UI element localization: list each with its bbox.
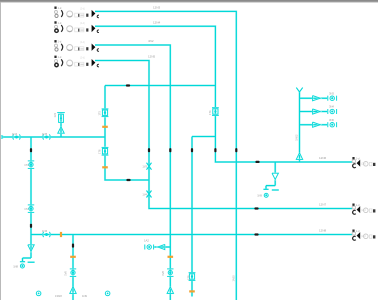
svg-text:1-d: 1-d xyxy=(58,22,62,25)
svg-text:12N4: 12N4 xyxy=(153,20,161,24)
svg-text:3N4: 3N4 xyxy=(329,105,334,109)
svg-text:(2-d): (2-d) xyxy=(80,8,85,10)
svg-text:3N3: 3N3 xyxy=(329,91,334,95)
svg-text:1N05: 1N05 xyxy=(232,275,236,282)
svg-text:1-d: 1-d xyxy=(58,56,62,59)
svg-text:1T4: 1T4 xyxy=(208,110,212,115)
svg-text:1N8: 1N8 xyxy=(13,264,18,268)
svg-text:1T1: 1T1 xyxy=(24,163,29,167)
svg-text:1-d: 1-d xyxy=(356,204,360,207)
svg-text:12N6: 12N6 xyxy=(319,156,327,160)
svg-text:1-d: 1-d xyxy=(356,230,360,233)
svg-text:1T8: 1T8 xyxy=(187,275,191,280)
svg-text:1N9: 1N9 xyxy=(82,294,87,298)
svg-text:12N5: 12N5 xyxy=(148,55,156,59)
svg-text:1T6: 1T6 xyxy=(98,149,102,154)
svg-text:1-d: 1-d xyxy=(58,7,62,10)
svg-text:12N8: 12N8 xyxy=(319,228,327,232)
svg-text:4N2: 4N2 xyxy=(148,39,154,43)
svg-text:(2-d): (2-d) xyxy=(80,23,85,25)
svg-text:(2-d): (2-d) xyxy=(80,42,85,44)
svg-text:1V6: 1V6 xyxy=(63,271,67,276)
svg-text:1V3: 1V3 xyxy=(142,165,147,169)
svg-text:1V2: 1V2 xyxy=(53,112,57,117)
svg-text:1N5: 1N5 xyxy=(42,132,48,136)
svg-text:1N6: 1N6 xyxy=(42,229,48,233)
svg-text:1N9: 1N9 xyxy=(257,194,262,198)
svg-text:(2-d): (2-d) xyxy=(80,58,85,60)
svg-text:1A2: 1A2 xyxy=(144,239,149,243)
svg-text:12N7: 12N7 xyxy=(319,202,327,206)
svg-text:1T5: 1T5 xyxy=(98,110,102,115)
svg-text:1-d: 1-d xyxy=(58,41,62,44)
svg-text:1N4: 1N4 xyxy=(12,132,18,136)
svg-text:1-d: 1-d xyxy=(356,158,360,161)
svg-text:12N3: 12N3 xyxy=(153,6,161,10)
svg-text:1V4: 1V4 xyxy=(142,192,147,196)
svg-text:1SN8: 1SN8 xyxy=(55,294,62,298)
svg-text:1T2: 1T2 xyxy=(24,207,29,211)
svg-text:1V8: 1V8 xyxy=(161,271,165,276)
svg-text:3N6: 3N6 xyxy=(329,118,334,122)
svg-text:1N02: 1N02 xyxy=(294,134,298,141)
